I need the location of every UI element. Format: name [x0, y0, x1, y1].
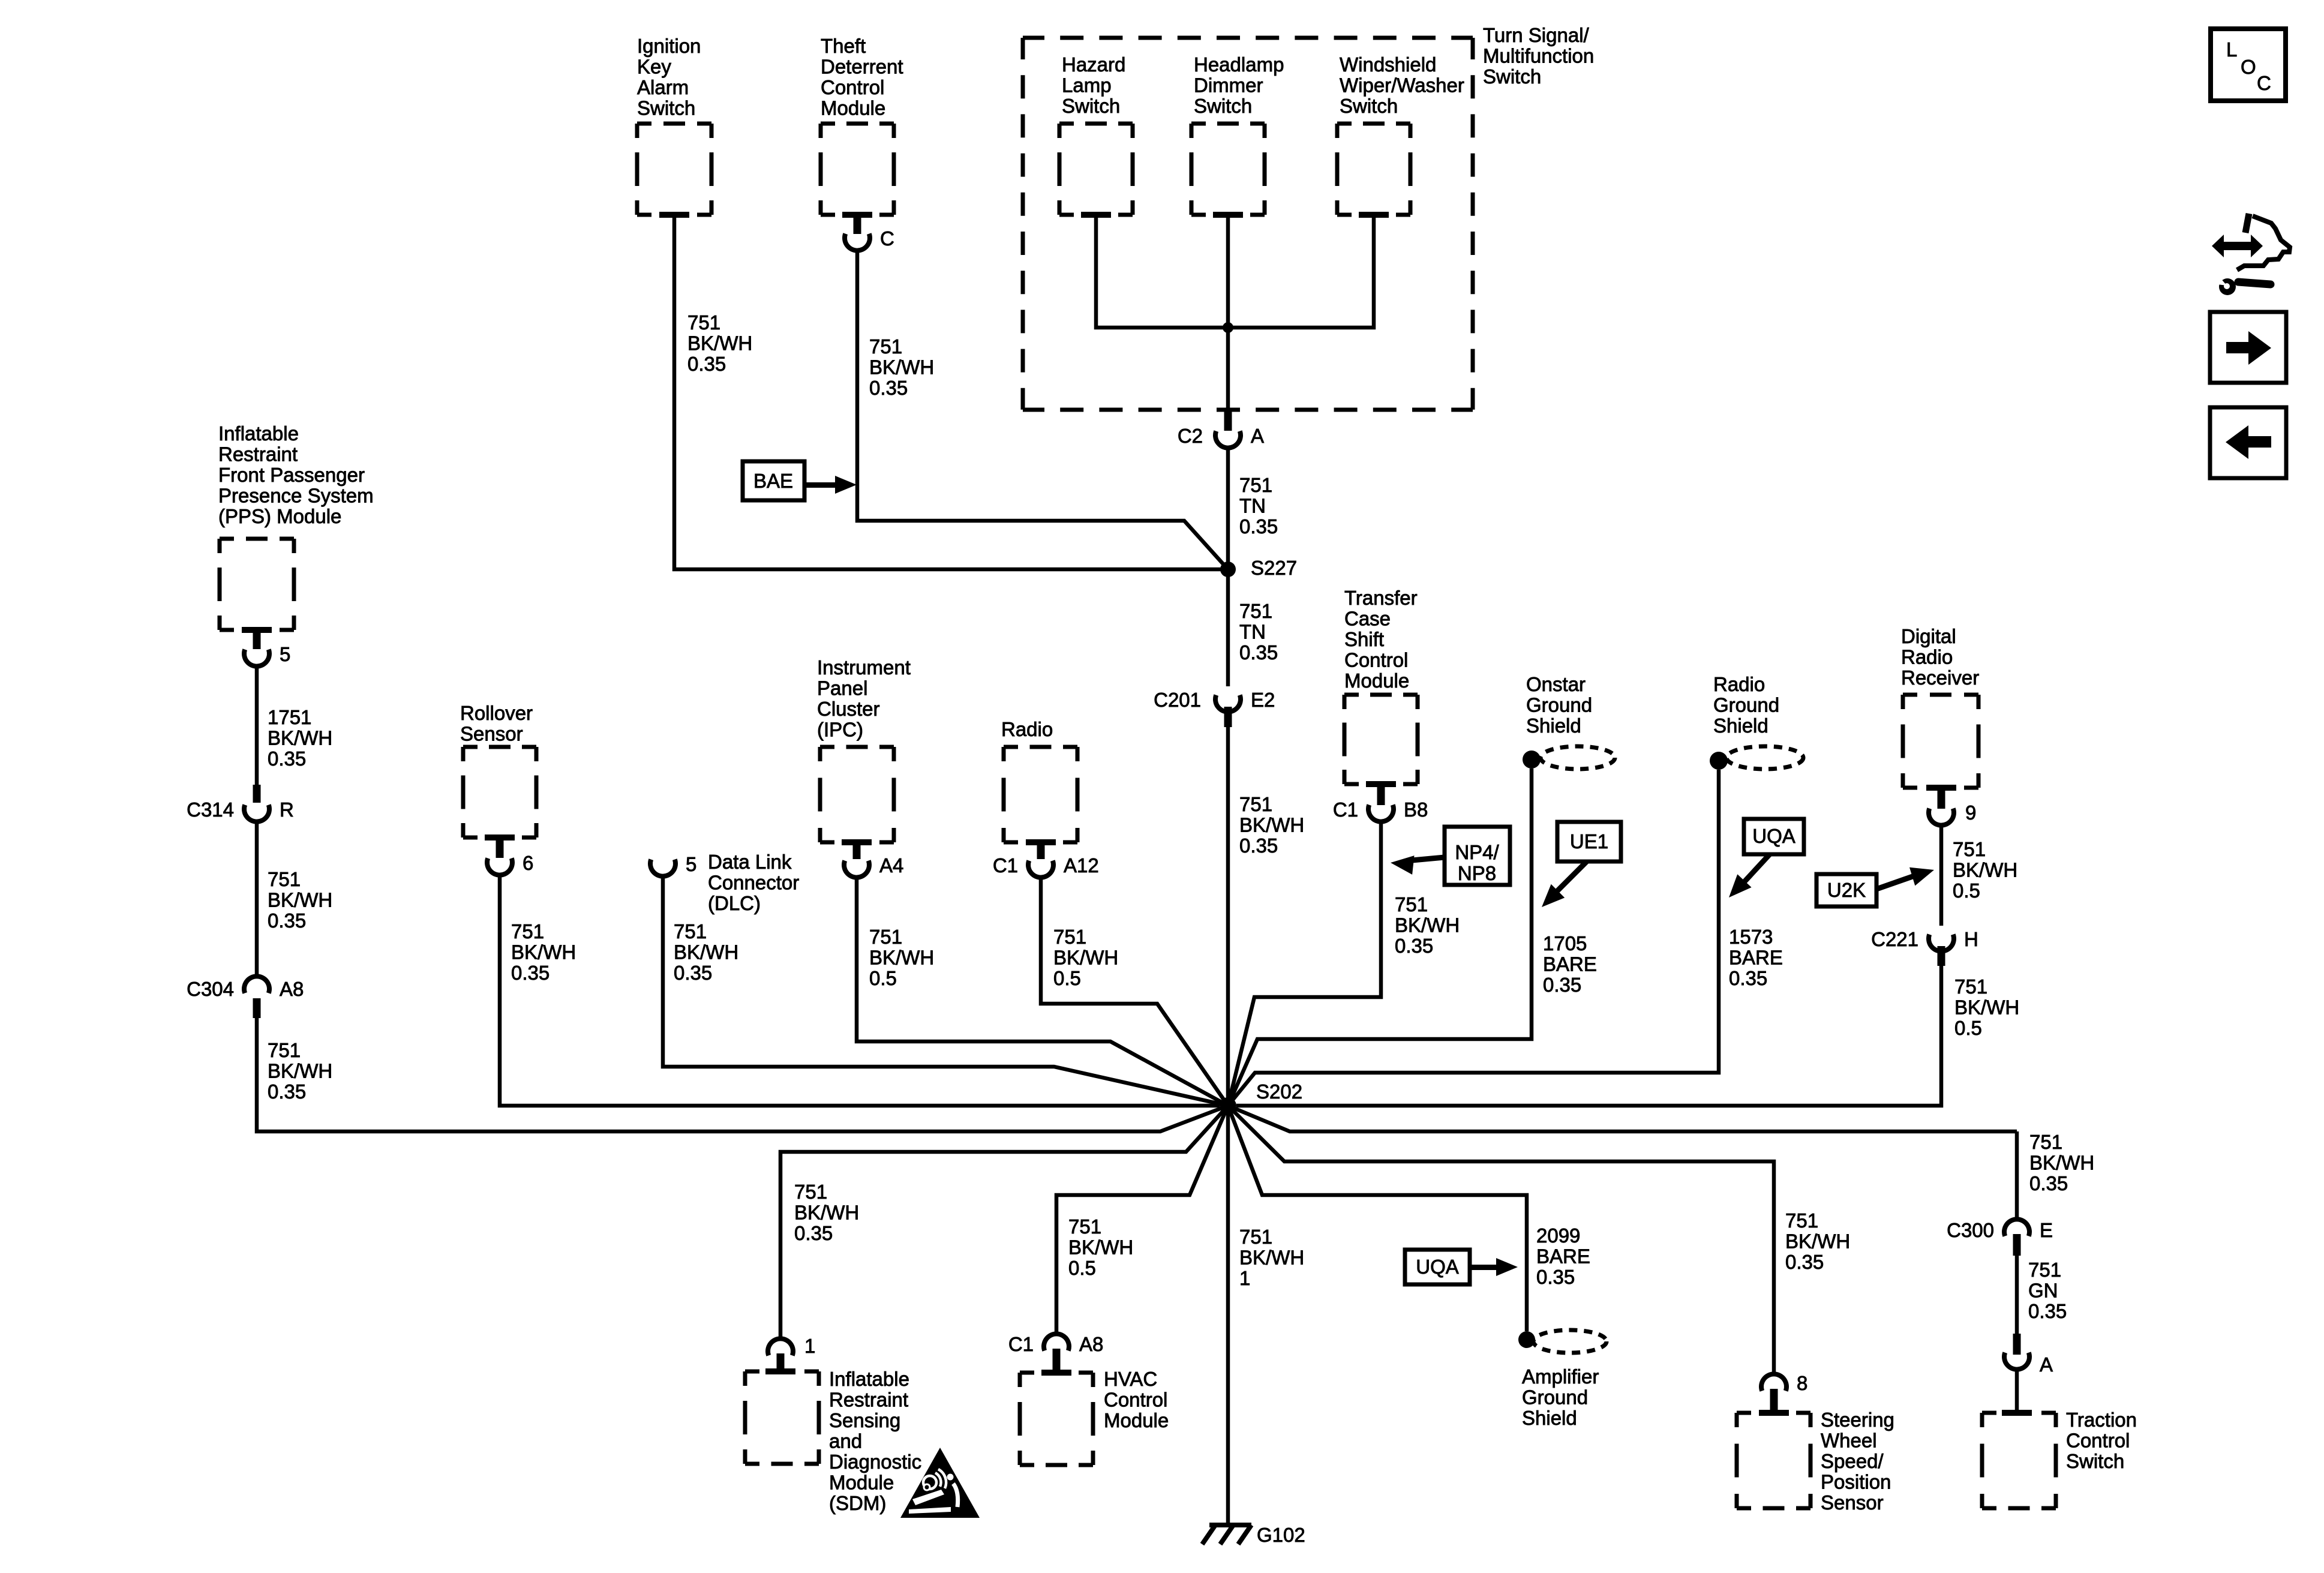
wire from horizontal run down to connector C300 [2015, 1131, 2019, 1218]
svg-text:6: 6 [523, 852, 533, 874]
svg-text:751: 751 [869, 926, 902, 948]
wire 751 TN 0.35 from S227 to connector C201 [1228, 569, 1278, 686]
label box UE1 with arrow [1542, 822, 1621, 907]
svg-text:H: H [1964, 928, 1978, 950]
service manual icon (double arrow, outline, wrench) [2212, 214, 2290, 295]
svg-text:751: 751 [1395, 893, 1428, 915]
svg-text:A: A [2040, 1353, 2053, 1376]
svg-text:TN: TN [1239, 495, 1266, 517]
svg-text:751: 751 [2029, 1131, 2062, 1153]
svg-text:Rollover: Rollover [460, 702, 533, 724]
label box BAE with arrow [743, 461, 857, 500]
svg-text:Transfer: Transfer [1344, 587, 1418, 609]
svg-text:(SDM): (SDM) [829, 1492, 886, 1514]
svg-text:Wheel: Wheel [1821, 1430, 1877, 1452]
svg-text:Cluster: Cluster [817, 698, 880, 720]
previous page arrow box [2210, 407, 2286, 478]
svg-text:Turn Signal/: Turn Signal/ [1483, 24, 1590, 46]
svg-text:Inflatable: Inflatable [829, 1368, 909, 1390]
svg-text:751: 751 [1239, 600, 1272, 622]
svg-text:Radio: Radio [1713, 673, 1765, 695]
svg-text:Position: Position [1821, 1471, 1891, 1493]
svg-text:751: 751 [268, 868, 301, 890]
svg-text:BK/WH: BK/WH [1239, 814, 1304, 836]
wire 751 BK/WH 0.35 from C314 to C304 [257, 822, 332, 975]
connector pin A4 of IPC [844, 842, 903, 878]
svg-text:NP8: NP8 [1458, 862, 1496, 884]
svg-text:0.35: 0.35 [2029, 1172, 2068, 1194]
svg-text:Case: Case [1344, 608, 1391, 630]
svg-text:C314: C314 [187, 798, 234, 821]
wire from Windshield Wiper/Washer Switch to junction [1232, 215, 1374, 328]
svg-text:C1: C1 [993, 854, 1018, 876]
svg-text:Data Link: Data Link [708, 851, 792, 873]
svg-text:G102: G102 [1257, 1524, 1305, 1546]
svg-text:L: L [2226, 38, 2237, 61]
svg-text:UQA: UQA [1416, 1256, 1459, 1278]
svg-text:C1: C1 [1008, 1333, 1034, 1355]
svg-text:0.35: 0.35 [687, 353, 726, 375]
wire 751 BK/WH 0.35 from C304 to splice S202 [257, 1018, 1228, 1131]
svg-text:0.35: 0.35 [1729, 967, 1767, 989]
svg-text:0.35: 0.35 [869, 377, 908, 399]
svg-text:BK/WH: BK/WH [794, 1202, 859, 1224]
svg-text:A12: A12 [1064, 854, 1099, 876]
svg-text:Digital: Digital [1901, 625, 1956, 647]
LOC reference box [2211, 29, 2286, 101]
connector C201 pin E2 [1154, 689, 1275, 727]
svg-text:Hazard: Hazard [1062, 53, 1125, 76]
next page arrow box [2210, 312, 2286, 383]
svg-text:BARE: BARE [1729, 947, 1783, 969]
dashed enclosure Turn Signal/Multifunction Switch [1023, 24, 1594, 410]
module Radio [1001, 718, 1077, 845]
svg-text:BK/WH: BK/WH [268, 889, 332, 911]
svg-text:(IPC): (IPC) [817, 719, 863, 741]
svg-text:Front Passenger: Front Passenger [218, 464, 365, 486]
svg-text:1573: 1573 [1729, 926, 1773, 948]
svg-text:8: 8 [1797, 1372, 1807, 1394]
svg-text:A8: A8 [1079, 1333, 1103, 1355]
svg-text:BK/WH: BK/WH [674, 941, 738, 963]
svg-text:BK/WH: BK/WH [687, 332, 752, 355]
connector C1 pin A12 of Radio [993, 842, 1099, 878]
svg-text:BK/WH: BK/WH [1053, 947, 1118, 969]
svg-text:Radio: Radio [1001, 718, 1053, 740]
svg-text:BAE: BAE [753, 470, 793, 492]
wire from Hazard Lamp Switch to junction [1096, 215, 1224, 328]
svg-text:Lamp: Lamp [1062, 74, 1112, 97]
svg-text:BK/WH: BK/WH [1395, 914, 1460, 936]
wire 751 GN 0.35 from C300 to connector A [2017, 1256, 2067, 1335]
wire 751 BK/WH 0.35 from splice S202 to C300 [1228, 1106, 2094, 1194]
wire 751 TN 0.35 from C2 to splice S227 [1228, 449, 1278, 569]
svg-text:0.35: 0.35 [674, 962, 712, 984]
svg-text:Amplifier: Amplifier [1522, 1365, 1599, 1388]
svg-text:Ground: Ground [1526, 694, 1592, 716]
svg-text:A: A [1251, 425, 1264, 447]
svg-text:Switch: Switch [637, 97, 695, 119]
svg-text:Traction: Traction [2066, 1409, 2137, 1431]
svg-text:Key: Key [637, 56, 671, 78]
label box U2K with arrow [1816, 867, 1934, 906]
svg-text:HVAC: HVAC [1104, 1368, 1157, 1390]
svg-text:0.35: 0.35 [268, 748, 306, 770]
svg-text:Receiver: Receiver [1901, 667, 1979, 689]
module Instrument Panel Cluster (IPC) [817, 656, 911, 845]
svg-text:and: and [829, 1430, 862, 1452]
connector pin 5 of Data Link Connector (DLC) [650, 851, 799, 914]
wire 751 BK/WH 0.35 from splice S202 to SDM [780, 1106, 1228, 1338]
node Onstar Ground Shield [1523, 673, 1615, 769]
wire from connector A to Traction Control Switch [2015, 1370, 2019, 1413]
svg-text:751: 751 [511, 920, 544, 942]
svg-text:Control: Control [1104, 1389, 1167, 1411]
svg-text:0.35: 0.35 [794, 1222, 833, 1244]
svg-text:Speed/: Speed/ [1821, 1450, 1884, 1472]
svg-text:0.35: 0.35 [1785, 1251, 1824, 1273]
svg-text:BK/WH: BK/WH [1953, 859, 2017, 881]
svg-text:A4: A4 [879, 854, 903, 876]
svg-text:E2: E2 [1251, 689, 1275, 711]
svg-text:Switch: Switch [1062, 95, 1120, 117]
svg-text:Control: Control [2066, 1430, 2130, 1452]
svg-text:U2K: U2K [1827, 879, 1866, 901]
svg-text:751: 751 [869, 335, 902, 358]
svg-text:Instrument: Instrument [817, 656, 911, 679]
wire 751 BK/WH 0.35 from Theft Deterrent Control Module to splice S227 [857, 251, 1228, 569]
connector C pin of Theft Deterrent Control Module [845, 215, 894, 251]
svg-text:S227: S227 [1251, 557, 1297, 579]
svg-text:751: 751 [1954, 975, 1987, 998]
svg-text:O: O [2241, 56, 2256, 78]
wire 751 BK/WH 0.35 from Transfer Case module to splice S202 [1228, 822, 1460, 1106]
wire 2099 BARE 0.35 from splice S202 to Amplifier Ground Shield [1228, 1106, 1590, 1331]
svg-text:BK/WH: BK/WH [1068, 1236, 1133, 1259]
splice S227 [1220, 557, 1297, 579]
wire 751 BK/WH 0.5 from Radio to splice S202 [1041, 878, 1228, 1106]
svg-text:Sensing: Sensing [829, 1409, 900, 1431]
svg-text:0.35: 0.35 [268, 1080, 306, 1103]
svg-text:Headlamp: Headlamp [1194, 53, 1284, 76]
svg-text:Deterrent: Deterrent [821, 56, 903, 78]
wire 751 BK/WH 0.35 from splice S202 to Steering Wheel Speed/Position Sensor [1228, 1106, 1850, 1373]
svg-text:BK/WH: BK/WH [1954, 996, 2019, 1019]
svg-text:0.35: 0.35 [1395, 935, 1433, 957]
svg-text:C2: C2 [1178, 425, 1203, 447]
ground G102 [1202, 1523, 1305, 1546]
svg-text:9: 9 [1965, 801, 1976, 824]
module Inflatable Restraint Sensing and Diagnostic Module (SDM) [745, 1368, 921, 1514]
svg-text:Module: Module [1104, 1409, 1169, 1431]
connector C300 pin E [1947, 1219, 2053, 1256]
svg-text:751: 751 [1239, 474, 1272, 496]
svg-text:Ignition: Ignition [637, 35, 701, 57]
connector pin A of Traction Control Switch [2004, 1334, 2053, 1376]
module Headlamp Dimmer Switch [1191, 53, 1284, 218]
svg-text:751: 751 [1239, 793, 1272, 815]
connector C304 pin A8 [187, 976, 304, 1018]
svg-text:751: 751 [674, 920, 707, 942]
svg-text:Sensor: Sensor [460, 723, 523, 745]
connector C1 pin A8 of HVAC Control Module [1008, 1333, 1104, 1373]
svg-text:Switch: Switch [2066, 1450, 2124, 1472]
svg-text:0.5: 0.5 [1068, 1257, 1096, 1279]
svg-text:Presence System: Presence System [218, 485, 374, 507]
svg-text:Windshield: Windshield [1340, 53, 1436, 76]
svg-text:Wiper/Washer: Wiper/Washer [1340, 74, 1464, 97]
connector pin 9 of Digital Radio Receiver [1929, 789, 1976, 825]
svg-text:BK/WH: BK/WH [1785, 1230, 1850, 1253]
svg-text:BK/WH: BK/WH [268, 1060, 332, 1082]
module Theft Deterrent Control Module [821, 35, 903, 218]
svg-text:751: 751 [2028, 1259, 2061, 1281]
svg-text:0.35: 0.35 [1536, 1266, 1575, 1288]
module Rollover Sensor [460, 702, 536, 840]
wire 751 BK/WH 1 from splice S202 to ground G102 [1228, 1106, 1304, 1524]
svg-text:0.5: 0.5 [1954, 1017, 1982, 1039]
svg-text:Ground: Ground [1522, 1386, 1588, 1409]
svg-text:BARE: BARE [1536, 1245, 1590, 1268]
svg-text:TN: TN [1239, 621, 1266, 643]
svg-text:C304: C304 [187, 978, 234, 1000]
wire 751 BK/WH 0.35 from DLC to splice S202 [663, 877, 1228, 1106]
splice S202 [1220, 1080, 1302, 1114]
svg-text:Multifunction: Multifunction [1483, 45, 1594, 67]
svg-text:(DLC): (DLC) [708, 892, 761, 914]
connector C2 pin A [1178, 412, 1264, 448]
svg-text:BK/WH: BK/WH [511, 941, 576, 963]
svg-text:1: 1 [804, 1335, 815, 1357]
svg-text:Onstar: Onstar [1526, 673, 1586, 695]
svg-text:Panel: Panel [817, 677, 867, 700]
wire 1705 BARE 0.35 from Onstar Ground Shield to splice S202 [1228, 769, 1597, 1106]
svg-text:0.35: 0.35 [1543, 974, 1581, 996]
wire 751 BK/WH 0.35 from Ignition Key Alarm Switch to splice S227 [674, 215, 1224, 569]
svg-text:Radio: Radio [1901, 646, 1953, 668]
module Windshield Wiper/Washer Switch [1337, 53, 1464, 218]
svg-text:(PPS) Module: (PPS) Module [218, 505, 341, 527]
svg-text:751: 751 [794, 1181, 827, 1203]
svg-text:Shield: Shield [1526, 715, 1581, 737]
wire from Headlamp Dimmer Switch to junction [1226, 215, 1230, 328]
module Digital Radio Receiver [1901, 625, 1979, 791]
connector C1 pin B8 of Transfer Case Shift Control Module [1333, 786, 1428, 822]
connector pin 6 of Rollover Sensor [487, 837, 533, 875]
label box UQA with arrow (amplifier) [1405, 1250, 1518, 1284]
svg-text:Module: Module [829, 1472, 894, 1494]
svg-text:751: 751 [1053, 926, 1086, 948]
svg-text:5: 5 [686, 853, 696, 875]
svg-text:B8: B8 [1404, 798, 1428, 821]
label box UQA with arrow (radio ground) [1729, 819, 1804, 897]
svg-text:0.5: 0.5 [1953, 879, 1980, 902]
module Inflatable Restraint Front Passenger Presence System (PPS) Module [218, 422, 374, 633]
svg-text:BK/WH: BK/WH [2029, 1152, 2094, 1174]
svg-text:E: E [2040, 1219, 2053, 1241]
svg-text:0.35: 0.35 [1239, 834, 1278, 857]
svg-text:C: C [880, 227, 894, 250]
svg-text:Shift: Shift [1344, 628, 1384, 650]
svg-text:BK/WH: BK/WH [268, 727, 332, 749]
svg-text:A8: A8 [280, 978, 304, 1000]
svg-text:C300: C300 [1947, 1219, 1994, 1241]
svg-text:751: 751 [687, 311, 720, 334]
svg-text:UQA: UQA [1752, 825, 1795, 847]
svg-text:0.5: 0.5 [1053, 967, 1081, 989]
svg-text:0.35: 0.35 [1239, 641, 1278, 664]
svg-text:Steering: Steering [1821, 1409, 1894, 1431]
svg-text:R: R [280, 798, 294, 821]
node Amplifier Ground Shield [1518, 1330, 1607, 1429]
svg-text:751: 751 [1785, 1209, 1818, 1232]
svg-text:Shield: Shield [1713, 715, 1768, 737]
svg-text:0.35: 0.35 [511, 962, 550, 984]
svg-text:BK/WH: BK/WH [1239, 1247, 1304, 1269]
svg-text:Module: Module [821, 97, 885, 119]
module Steering Wheel Speed/Position Sensor [1737, 1409, 1894, 1514]
connector C314 pin R [187, 785, 294, 822]
svg-text:1705: 1705 [1543, 932, 1587, 954]
svg-text:GN: GN [2028, 1280, 2058, 1302]
wire 1573 BARE 0.35 from Radio Ground Shield to splice S202 [1228, 770, 1783, 1106]
junction node inside multifunction switch [1223, 322, 1233, 333]
svg-text:2099: 2099 [1536, 1224, 1580, 1247]
svg-text:Module: Module [1344, 670, 1409, 692]
module Transfer Case Shift Control Module [1344, 587, 1418, 787]
connector pin 8 of Steering Wheel Speed/Position Sensor [1761, 1372, 1807, 1413]
connector pin 1 of SDM [768, 1335, 815, 1371]
svg-text:NP4/: NP4/ [1455, 841, 1499, 863]
svg-text:UE1: UE1 [1570, 830, 1608, 852]
svg-text:C1: C1 [1333, 798, 1358, 821]
svg-text:1: 1 [1239, 1267, 1250, 1289]
module Traction Control Switch [1982, 1409, 2137, 1508]
connector C221 pin H [1871, 928, 1978, 966]
wire 751 BK/WH 0.35 from Rollover Sensor to splice S202 [500, 876, 1220, 1106]
svg-text:Switch: Switch [1483, 65, 1541, 88]
svg-text:1751: 1751 [268, 706, 311, 728]
svg-text:0.35: 0.35 [268, 909, 306, 932]
svg-text:751: 751 [1953, 838, 1986, 860]
node Radio Ground Shield [1710, 673, 1803, 770]
svg-text:S202: S202 [1256, 1080, 1302, 1103]
svg-text:BK/WH: BK/WH [869, 947, 934, 969]
svg-text:C201: C201 [1154, 689, 1201, 711]
svg-text:Ground: Ground [1713, 694, 1779, 716]
svg-text:0.35: 0.35 [2028, 1300, 2067, 1322]
module Ignition Key Alarm Switch [637, 35, 711, 218]
svg-text:C221: C221 [1871, 928, 1918, 950]
svg-text:Restraint: Restraint [829, 1389, 908, 1411]
wire 751 BK/WH 0.5 from Digital Radio Receiver to C221 [1941, 826, 2017, 926]
airbag warning triangle icon [900, 1448, 980, 1518]
svg-text:Control: Control [1344, 649, 1408, 671]
svg-text:Restraint: Restraint [218, 443, 298, 466]
svg-text:751: 751 [1068, 1215, 1101, 1238]
label box NP4/NP8 with arrow [1391, 827, 1510, 885]
connector pin 5 of PPS Module [244, 630, 290, 667]
svg-text:Alarm: Alarm [637, 76, 689, 98]
wire 751 BK/WH 0.5 from C221 to splice S202 [1236, 966, 2019, 1106]
svg-text:Switch: Switch [1340, 95, 1398, 117]
svg-text:Sensor: Sensor [1821, 1491, 1884, 1514]
module Hazard Lamp Switch [1059, 53, 1133, 218]
wire 751 BK/WH 0.35 from C201 to splice S202 [1228, 727, 1304, 1106]
svg-text:Connector: Connector [708, 872, 799, 894]
svg-text:5: 5 [280, 643, 290, 665]
svg-text:0.35: 0.35 [1239, 515, 1278, 538]
module HVAC Control Module [1020, 1368, 1169, 1465]
svg-text:BK/WH: BK/WH [869, 356, 934, 379]
svg-text:751: 751 [1239, 1226, 1272, 1248]
svg-text:0.5: 0.5 [869, 967, 897, 989]
svg-text:Shield: Shield [1522, 1407, 1577, 1429]
wire from junction to connector C2 [1226, 328, 1230, 412]
svg-text:Switch: Switch [1194, 95, 1252, 117]
svg-text:Diagnostic: Diagnostic [829, 1451, 921, 1473]
svg-text:Inflatable: Inflatable [218, 422, 299, 445]
wire 751 BK/WH 0.5 from IPC to splice S202 [857, 878, 1228, 1106]
svg-text:Dimmer: Dimmer [1194, 74, 1263, 97]
svg-text:BARE: BARE [1543, 953, 1597, 975]
svg-text:Control: Control [821, 76, 884, 98]
svg-text:751: 751 [268, 1039, 301, 1061]
wire 751 BK/WH 0.5 from splice S202 to HVAC Control Module [1056, 1106, 1228, 1333]
wire 1751 BK/WH 0.35 from PPS to C314 [257, 667, 332, 785]
svg-text:Theft: Theft [821, 35, 866, 57]
svg-text:C: C [2257, 72, 2271, 94]
